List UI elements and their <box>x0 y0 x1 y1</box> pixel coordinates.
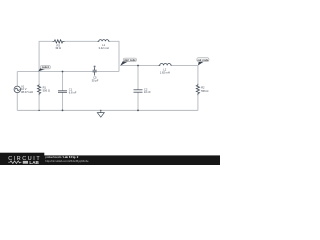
inductor L2 <box>159 64 172 66</box>
label C1 value <box>69 88 77 95</box>
svg-text:1.82 mH: 1.82 mH <box>160 70 170 74</box>
label L2 value <box>160 68 170 75</box>
inductor L1 <box>98 40 110 42</box>
wire source column <box>16 72 18 111</box>
resistor R2 <box>196 84 199 95</box>
wire C2 column <box>137 66 139 111</box>
junction node dots <box>38 65 139 112</box>
wire top-left vertical and top rail left segment <box>39 41 52 71</box>
resistor R1 <box>38 84 41 95</box>
label C2 value <box>144 87 151 94</box>
svg-text:R2: R2 <box>201 86 205 90</box>
watermark bar <box>0 155 220 165</box>
svg-text:556 Ω: 556 Ω <box>43 88 50 92</box>
label L1 value <box>99 43 109 50</box>
resistor R3 <box>53 40 65 43</box>
wire left rail <box>17 71 119 73</box>
svg-text:proberhood1 / Lab 8 Fig. 2: proberhood1 / Lab 8 Fig. 2 <box>45 155 78 159</box>
watermark logo zigzag <box>8 161 21 164</box>
wire right rail <box>120 65 158 67</box>
wire R1 column top lead <box>38 72 40 111</box>
wire bottom rail <box>17 109 198 111</box>
label V1 value <box>21 85 34 94</box>
capacitor C5 coupling <box>93 66 97 76</box>
wire top rail right segment and right vertical <box>110 41 120 71</box>
svg-text:node1: node1 <box>42 66 50 69</box>
voltage source V1 <box>14 86 21 93</box>
wire C1 column <box>62 72 64 111</box>
wire right rail segment after L2 <box>172 66 198 84</box>
svg-text:556 Ω: 556 Ω <box>201 89 208 93</box>
label R2 value <box>201 86 208 93</box>
svg-text:LAB: LAB <box>29 160 39 165</box>
capacitor C1 <box>58 91 67 93</box>
wire R2 column bottom lead <box>197 95 199 110</box>
capacitor C2 <box>134 90 143 92</box>
svg-text:out_node: out_node <box>198 59 209 62</box>
svg-text:3.42 mH: 3.42 mH <box>99 46 109 50</box>
watermark logo block <box>0 153 44 165</box>
label R1 value <box>43 86 50 93</box>
watermark logo mark <box>23 161 28 164</box>
ground <box>97 110 104 117</box>
svg-text:38.07 kHz: 38.07 kHz <box>21 90 34 94</box>
svg-text:39 Ω: 39 Ω <box>55 46 61 50</box>
label C5 value <box>92 76 99 83</box>
svg-text:30 pF: 30 pF <box>92 78 99 82</box>
svg-text:mid_node: mid_node <box>124 59 136 62</box>
label R3 value <box>55 43 61 50</box>
node flag Vin <box>38 65 50 71</box>
svg-text:6.8 nF: 6.8 nF <box>69 90 77 94</box>
svg-text:10 nF: 10 nF <box>144 90 151 94</box>
node flag Vout <box>197 58 209 66</box>
wire top rail middle segment <box>65 40 98 42</box>
node flag Vmid <box>120 58 136 66</box>
svg-text:http:⁄⁄circuitlab.com⁄c⁄5dv45y: http:⁄⁄circuitlab.com⁄c⁄5dv45yqb6c3e <box>45 159 89 163</box>
